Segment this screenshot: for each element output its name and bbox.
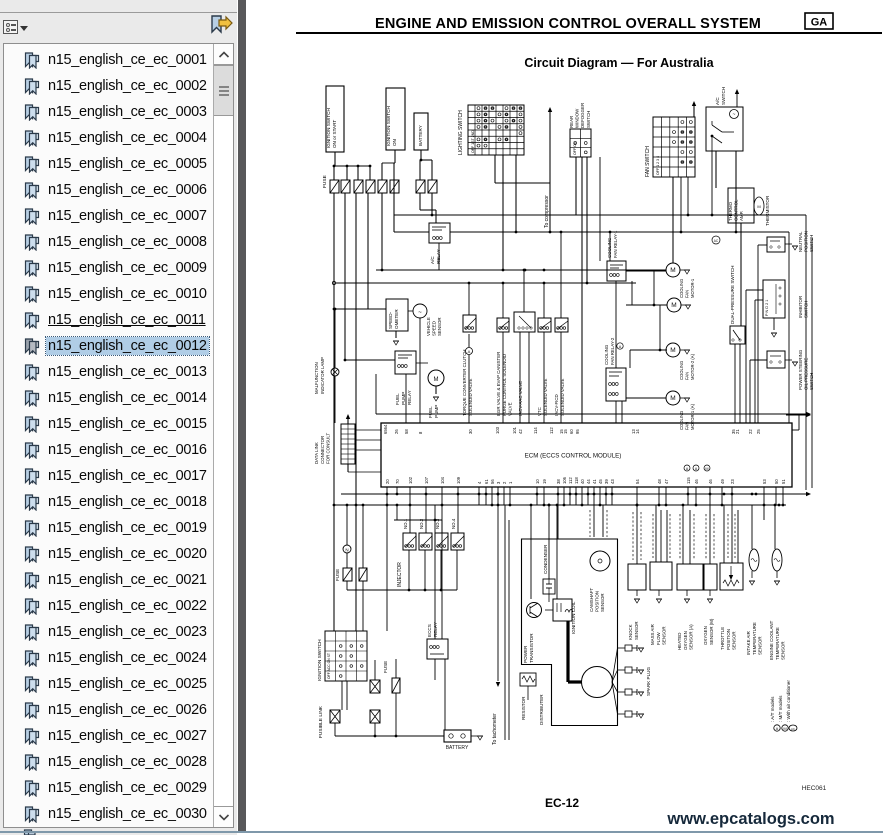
svg-text:To compressor: To compressor (544, 195, 550, 228)
svg-text:A: A (468, 349, 471, 354)
svg-text:EGR VALVE & EVAP CANISTER: EGR VALVE & EVAP CANISTER (496, 352, 501, 416)
svg-text:115: 115 (686, 477, 691, 484)
svg-text:106: 106 (562, 476, 567, 484)
svg-text:FAN SWITCH: FAN SWITCH (645, 146, 651, 177)
svg-text:VEHICLE: VEHICLE (426, 317, 431, 336)
svg-text:SPEED-: SPEED- (388, 311, 393, 329)
svg-text:GA: GA (811, 17, 828, 29)
svg-text:IGNITION SWITCH: IGNITION SWITCH (386, 106, 391, 146)
svg-text:M: M (670, 395, 675, 402)
svg-text:THERMO: THERMO (728, 201, 733, 221)
svg-text:SOLENOID VALVE: SOLENOID VALVE (468, 379, 473, 416)
svg-text:RESISTOR: RESISTOR (521, 696, 526, 720)
svg-text:107: 107 (424, 476, 429, 484)
svg-text:IGNITION SWITCH: IGNITION SWITCH (326, 108, 331, 148)
svg-text:POSITION: POSITION (726, 629, 731, 650)
svg-text:M: M (783, 726, 786, 731)
svg-text:45: 45 (598, 479, 603, 484)
svg-text:51: 51 (781, 479, 786, 484)
svg-text:PUMP: PUMP (434, 405, 439, 418)
svg-text:FUEL: FUEL (395, 393, 400, 405)
svg-text:FAN: FAN (684, 290, 689, 298)
svg-text:6564: 6564 (383, 424, 388, 434)
svg-text:A: A (686, 467, 689, 471)
svg-text:4: 4 (477, 481, 482, 484)
svg-text:FUEL: FUEL (428, 406, 433, 418)
svg-text:ECM (ECCS CONTROL MODULE): ECM (ECCS CONTROL MODULE) (525, 453, 622, 460)
svg-text:IACV-FICD: IACV-FICD (554, 394, 559, 416)
svg-text:SPEED: SPEED (432, 321, 437, 336)
svg-text:OXYGEN: OXYGEN (683, 631, 688, 650)
svg-text:M: M (757, 204, 760, 209)
svg-text:ECCS: ECCS (427, 624, 432, 637)
svg-text:15: 15 (563, 429, 568, 434)
svg-text:M: M (705, 467, 708, 471)
svg-text:TRANSISTOR: TRANSISTOR (529, 633, 534, 663)
svg-text:SENSOR (A): SENSOR (A) (689, 624, 694, 650)
svg-text:MOTOR-1: MOTOR-1 (690, 278, 695, 298)
svg-text:RELAY: RELAY (433, 622, 438, 637)
svg-text:30: 30 (468, 429, 473, 434)
svg-text:RELAY: RELAY (407, 390, 412, 405)
svg-text:114: 114 (533, 427, 538, 434)
svg-text:SENSOR: SENSOR (437, 317, 442, 336)
svg-text:49: 49 (720, 479, 725, 484)
svg-text:104: 104 (440, 476, 445, 484)
svg-text:COOLING: COOLING (679, 279, 684, 298)
svg-text:OXYGEN: OXYGEN (703, 626, 708, 645)
svg-text:INJECTOR: INJECTOR (397, 562, 403, 587)
svg-text:TEMPERATURE: TEMPERATURE (752, 622, 757, 655)
svg-text:CAMSHAFT: CAMSHAFT (589, 588, 594, 612)
svg-text:IGNITION COIL: IGNITION COIL (571, 601, 576, 634)
svg-text:20: 20 (385, 479, 390, 484)
svg-text:22: 22 (748, 429, 753, 434)
svg-text:INHIBITOR: INHIBITOR (798, 296, 803, 318)
svg-text:38: 38 (556, 479, 561, 484)
svg-text:ON: ON (392, 139, 397, 146)
svg-text:47: 47 (664, 479, 669, 484)
svg-text:2: 2 (502, 481, 507, 484)
svg-text:FUSE: FUSE (383, 661, 388, 673)
svg-text:RELAY: RELAY (436, 249, 441, 264)
svg-text:KNOCK: KNOCK (628, 624, 633, 640)
svg-text:To tachometer: To tachometer (492, 713, 498, 745)
svg-text:23: 23 (730, 479, 735, 484)
svg-text:SPARK PLUG: SPARK PLUG (646, 667, 651, 696)
svg-text:42: 42 (518, 429, 523, 434)
svg-text:INDICATOR LAMP: INDICATOR LAMP (320, 357, 325, 394)
svg-text:POSITION: POSITION (595, 591, 600, 612)
svg-text:56: 56 (490, 479, 495, 484)
svg-text:SENSOR: SENSOR (662, 626, 667, 645)
svg-text:SENSOR: SENSOR (732, 631, 737, 650)
svg-text:~: ~ (418, 310, 422, 316)
svg-text:A: A (695, 467, 698, 471)
svg-text:HEC061: HEC061 (802, 785, 827, 792)
svg-text:46: 46 (694, 479, 699, 484)
svg-text:CONNECTOR: CONNECTOR (320, 436, 325, 464)
svg-text:AC: AC (714, 239, 719, 243)
svg-text:61: 61 (484, 479, 489, 484)
svg-text:70: 70 (395, 479, 400, 484)
svg-text:109: 109 (456, 476, 461, 484)
svg-text:OFF 1 2 3 4: OFF 1 2 3 4 (656, 156, 660, 175)
svg-text:M: M (434, 377, 439, 383)
svg-text:FAN RELAY-2: FAN RELAY-2 (610, 337, 615, 365)
svg-text:BATTERY: BATTERY (446, 745, 469, 751)
svg-text:58: 58 (404, 429, 409, 434)
svg-text:DUAL-PRESSURE SWITCH: DUAL-PRESSURE SWITCH (730, 266, 735, 324)
svg-text:FAN: FAN (684, 372, 689, 380)
svg-text:MALFUNCTION: MALFUNCTION (314, 362, 319, 394)
svg-text:25: 25 (756, 429, 761, 434)
svg-text:50: 50 (774, 479, 779, 484)
svg-text:EC-12: EC-12 (545, 796, 579, 810)
svg-text:: With air conditioner: : With air conditioner (786, 680, 791, 722)
svg-text:43: 43 (610, 479, 615, 484)
svg-text:ENGINE COOLANT: ENGINE COOLANT (769, 620, 774, 660)
svg-text:CONDENSER: CONDENSER (543, 544, 548, 574)
svg-text:39: 39 (604, 479, 609, 484)
svg-text:LIGHTING SWITCH: LIGHTING SWITCH (458, 110, 464, 155)
svg-text:1: 1 (508, 481, 513, 484)
svg-text:60: 60 (569, 429, 574, 434)
svg-text:101: 101 (512, 426, 517, 434)
svg-text:INTAKE AIR: INTAKE AIR (746, 631, 751, 655)
svg-text:FAN RELAY-1: FAN RELAY-1 (613, 230, 618, 258)
svg-text:NO.4: NO.4 (451, 518, 456, 529)
svg-text:102: 102 (408, 476, 413, 484)
svg-text:3: 3 (496, 481, 501, 484)
svg-text:FUSE: FUSE (335, 569, 340, 581)
svg-text:www.epcatalogs.com: www.epcatalogs.com (666, 810, 834, 828)
svg-text:112: 112 (549, 427, 554, 434)
svg-text:Circuit Diagram — For Australi: Circuit Diagram — For Australia (524, 56, 714, 70)
svg-text:A: A (776, 726, 779, 731)
svg-text:TORQUE CONVERTER CLUTCH: TORQUE CONVERTER CLUTCH (462, 350, 467, 416)
svg-text:FOR CONSULT: FOR CONSULT (326, 433, 331, 464)
svg-text:112: 112 (568, 477, 573, 484)
svg-text:SENSOR (M): SENSOR (M) (709, 618, 714, 645)
svg-text:40: 40 (580, 479, 585, 484)
svg-text:SWITCH: SWITCH (586, 111, 591, 128)
svg-text:REAR: REAR (569, 116, 574, 128)
svg-text:MASS AIR: MASS AIR (650, 624, 655, 645)
svg-text:~: ~ (733, 112, 736, 118)
svg-text:WINDOW: WINDOW (575, 108, 580, 128)
svg-text:8: 8 (418, 431, 423, 434)
svg-text:SENSOR: SENSOR (634, 621, 639, 640)
svg-text:VTC: VTC (537, 407, 542, 416)
svg-text:SENSOR: SENSOR (781, 641, 786, 660)
svg-text:BATTERY: BATTERY (418, 125, 423, 146)
svg-text:POWER: POWER (523, 645, 528, 663)
svg-text:P N D 2 1: P N D 2 1 (765, 300, 769, 316)
svg-text:SENSOR: SENSOR (758, 636, 763, 655)
svg-text:AMP.: AMP. (739, 211, 744, 221)
svg-text:SWITCH: SWITCH (721, 87, 726, 105)
svg-text:DEFOGGER: DEFOGGER (580, 103, 585, 128)
svg-text:41: 41 (592, 479, 597, 484)
svg-text:: M/T models: : M/T models (778, 695, 783, 722)
svg-text:118: 118 (574, 477, 579, 484)
svg-text:53: 53 (762, 479, 767, 484)
svg-text:HEATED: HEATED (677, 633, 682, 650)
svg-text:FLOW: FLOW (656, 631, 661, 645)
svg-text:AC: AC (791, 727, 795, 731)
svg-text:THERMISTOR: THERMISTOR (765, 195, 770, 226)
svg-text:54: 54 (635, 479, 640, 484)
svg-text:FUSIBLE LINK: FUSIBLE LINK (318, 705, 324, 738)
svg-text:COOLING: COOLING (679, 361, 684, 380)
svg-text:A/C: A/C (715, 97, 720, 105)
svg-text:: A/T models: : A/T models (770, 696, 775, 722)
svg-text:MOTOR-1 (A): MOTOR-1 (A) (690, 403, 695, 430)
svg-text:14: 14 (635, 429, 640, 434)
svg-text:44: 44 (586, 479, 591, 484)
svg-text:N: N (345, 548, 348, 553)
svg-text:19: 19 (542, 479, 547, 484)
svg-text:10: 10 (535, 479, 540, 484)
svg-text:95: 95 (575, 429, 580, 434)
svg-text:MOTOR-2 (A): MOTOR-2 (A) (690, 353, 695, 380)
svg-text:A/C: A/C (430, 256, 435, 264)
svg-text:IGNITION SWITCH: IGNITION SWITCH (317, 639, 323, 681)
svg-text:COOLING: COOLING (607, 237, 612, 258)
svg-text:DISTRIBUTER: DISTRIBUTER (539, 694, 544, 725)
svg-text:M: M (670, 347, 675, 354)
svg-text:THROTTLE: THROTTLE (720, 627, 725, 650)
svg-text:ON or START: ON or START (332, 120, 337, 148)
svg-text:SENSOR: SENSOR (600, 593, 605, 612)
svg-text:DATA LINK: DATA LINK (314, 442, 319, 464)
svg-text:21: 21 (735, 429, 740, 434)
svg-text:103: 103 (495, 426, 500, 434)
svg-text:OFF ACC ON ST: OFF ACC ON ST (327, 653, 331, 679)
svg-text:26: 26 (394, 429, 399, 434)
svg-text:A: A (619, 345, 622, 349)
svg-text:NEUTRAL: NEUTRAL (798, 231, 803, 252)
svg-text:46: 46 (708, 479, 713, 484)
svg-text:IACV-AAC VALVE: IACV-AAC VALVE (518, 381, 523, 416)
svg-text:M: M (670, 267, 675, 274)
svg-text:OMETER: OMETER (394, 309, 399, 329)
svg-text:M: M (671, 302, 676, 309)
svg-text:COOLING: COOLING (604, 344, 609, 365)
svg-text:TEMPERATURE: TEMPERATURE (775, 627, 780, 660)
svg-text:ENGINE AND EMISSION CONTROL OV: ENGINE AND EMISSION CONTROL OVERALL SYST… (375, 16, 761, 32)
svg-text:48: 48 (657, 479, 662, 484)
svg-text:POWER STEERING: POWER STEERING (798, 349, 803, 390)
svg-text:PUMP: PUMP (401, 392, 406, 405)
svg-text:FUSE: FUSE (322, 175, 328, 188)
svg-text:OFF 1ST 2ND: OFF 1ST 2ND (471, 130, 475, 153)
